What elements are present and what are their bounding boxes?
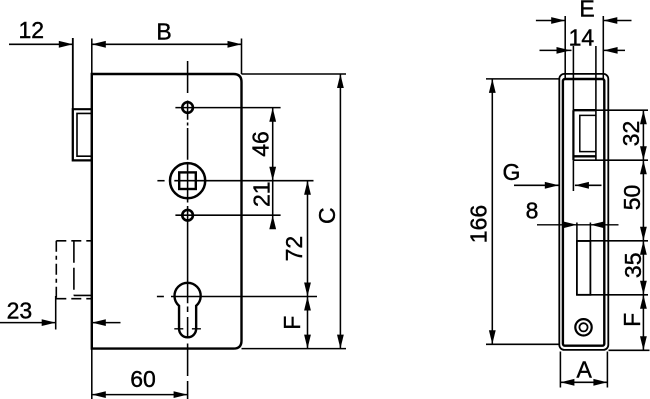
arrow 14 right [604, 47, 618, 54]
dimension line C [339, 74, 341, 349]
right view: case wall extension right [595, 46, 597, 110]
svg-text:F: F [279, 316, 305, 330]
arrow 166 top [489, 79, 496, 93]
arrow G left [545, 182, 559, 189]
arrow F bottom [304, 335, 311, 349]
follower square spindle hole [179, 172, 196, 189]
svg-text:23: 23 [7, 298, 33, 324]
extension line 166 bottom [486, 343, 559, 345]
deadbolt front face line [74, 294, 92, 296]
arrow B right [228, 41, 242, 48]
right view: faceplate inner outline [563, 79, 604, 346]
dimension line E [536, 20, 632, 22]
arrow 21 bottom [269, 215, 276, 229]
right view: bolt cutout [577, 241, 591, 295]
lower fixing hole [182, 210, 193, 221]
svg-text:32: 32 [618, 121, 644, 147]
vertical centerline through holes [187, 61, 189, 399]
arrow C top [337, 74, 344, 88]
arrow A right [593, 379, 607, 386]
extension line 32 top [596, 109, 648, 111]
svg-text:8: 8 [526, 198, 539, 224]
dimension line 23 [0, 322, 121, 324]
svg-text:46: 46 [248, 131, 274, 157]
arrow G right [575, 182, 589, 189]
extension line lower hole [175, 214, 280, 216]
right view: latch cutout right side [595, 110, 597, 160]
follower circle [170, 163, 205, 198]
lock body outline (front view) [92, 74, 242, 349]
extension line body right top [241, 39, 243, 75]
keyhole bottom arc centerline ticks [174, 328, 201, 330]
dimension line 14 [540, 49, 626, 51]
deadbolt hidden outline top (dashed) [56, 240, 92, 242]
right view: latch cutout bottom edge [573, 155, 596, 157]
arrow 72 bottom [304, 283, 311, 297]
extension line body top to C [242, 73, 347, 75]
arrow 50 top [640, 160, 647, 174]
arrow F right bottom [640, 336, 647, 350]
arrow 8 right [590, 221, 604, 228]
svg-text:14: 14 [569, 24, 595, 50]
svg-text:35: 35 [620, 253, 646, 279]
svg-text:A: A [577, 356, 593, 382]
right view: latch cutout top edge [573, 109, 596, 111]
extension line E left [564, 16, 566, 79]
svg-text:12: 12 [19, 17, 45, 43]
svg-text:F: F [619, 313, 645, 327]
extension line E right [602, 16, 604, 79]
latch bolt box (front view) [73, 109, 92, 160]
svg-text:G: G [503, 159, 521, 185]
right view: screw hole inner [579, 323, 587, 331]
arrow C bottom [337, 335, 344, 349]
arrow 8 left [563, 221, 577, 228]
extension line 32 bottom [573, 159, 648, 161]
upper fixing hole [182, 102, 193, 113]
dimension line 72 and F [307, 181, 309, 349]
deadbolt hidden outline bottom (dashed) [56, 298, 92, 300]
arrow 50 bottom [640, 227, 647, 241]
arrow 46 top [269, 108, 276, 122]
extension lines A [560, 352, 607, 388]
profile cylinder keyhole [174, 283, 200, 338]
arrow 23 right [92, 319, 106, 326]
latch bolt bevel inner lines [77, 113, 92, 156]
faceplate edge line (front view) [72, 38, 74, 161]
svg-text:21: 21 [249, 181, 275, 207]
dimension line 32 50 35 F [642, 110, 644, 350]
svg-text:C: C [314, 207, 340, 224]
dimension line 60 [92, 394, 188, 396]
svg-text:E: E [579, 0, 594, 21]
arrow 12 right [59, 41, 73, 48]
deadbolt hidden mid line (dashed) [73, 241, 75, 296]
extension line faceplate top [72, 38, 74, 109]
extension line F bottom right [609, 349, 650, 351]
arrow 72 top [304, 181, 311, 195]
svg-text:72: 72 [281, 236, 307, 262]
extension line 166 top [486, 78, 559, 80]
extension line upper hole [175, 107, 280, 109]
arrow A left [560, 379, 574, 386]
dimension line 166 [491, 79, 493, 344]
svg-text:50: 50 [619, 185, 645, 211]
arrow 14 left [557, 47, 571, 54]
dimension line B [92, 43, 242, 45]
extension line keyhole center [171, 296, 317, 298]
arrow B left [92, 41, 106, 48]
dimension line A [560, 381, 607, 383]
extension line deadbolt left [55, 296, 57, 330]
arrow 35 top [640, 241, 647, 255]
arrow 35 bottom [640, 281, 647, 295]
keyhole horizontal centerline dash [157, 296, 164, 298]
arrow F top [304, 297, 311, 311]
extension line body left bottom [91, 349, 93, 399]
arrow E left [551, 17, 565, 24]
arrow 60 left [92, 391, 106, 398]
dimension line 46 and 21 [272, 108, 274, 229]
right view: screw hole outer [575, 319, 591, 335]
svg-text:B: B [156, 19, 171, 45]
extension line 50 bottom [577, 240, 648, 242]
follower horizontal centerline dash [157, 180, 164, 182]
arrow 32 top [640, 110, 647, 124]
arrow 60 right [174, 391, 188, 398]
deadbolt hidden outline left (dashed) [55, 241, 57, 299]
dimension line G [514, 184, 602, 186]
extension line 35 bottom [577, 294, 648, 296]
dimension line 8 [537, 224, 619, 226]
svg-text:60: 60 [130, 366, 156, 392]
dimension line 12 [9, 43, 73, 45]
right view: latch bevel lines [580, 115, 596, 151]
extension line follower center [174, 180, 313, 182]
right view: bolt cutout extension verticals [577, 223, 591, 242]
extension line body left top [91, 39, 93, 75]
right view: latch cutout left side [572, 110, 574, 160]
arrow 32 bottom [640, 146, 647, 160]
arrow E right [603, 17, 617, 24]
arrow F right top [640, 295, 647, 309]
arrow 23 left [42, 319, 56, 326]
right view: faceplate outer outline [559, 74, 608, 350]
arrow 46 bottom [269, 167, 276, 181]
extension line body bottom to C [242, 348, 347, 350]
svg-text:166: 166 [466, 205, 492, 243]
right view: case wall extension left [572, 46, 574, 191]
arrow 166 bottom [489, 330, 496, 344]
